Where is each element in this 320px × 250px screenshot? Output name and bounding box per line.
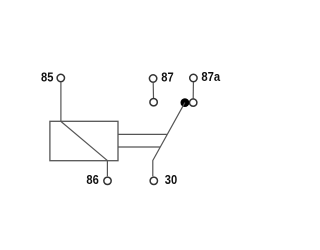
svg-text:30: 30 [165, 172, 177, 187]
contact 87a (normally closed) [190, 99, 197, 106]
svg-text:85: 85 [41, 70, 53, 85]
coil diagonal [61, 122, 107, 161]
terminal 87 [149, 75, 156, 82]
terminal 87a [190, 74, 197, 81]
wire 87 stub [152, 83, 154, 99]
wire 87a stub [192, 82, 194, 98]
actuator link upper [118, 133, 167, 135]
svg-text:86: 86 [86, 172, 98, 187]
terminal 30 [150, 177, 157, 184]
svg-text:87a: 87a [201, 69, 220, 84]
svg-text:87: 87 [161, 69, 173, 84]
armature contact dot [181, 98, 190, 107]
actuator link lower [118, 146, 160, 148]
wire coil to 86 [106, 161, 108, 177]
wire 85 to coil [60, 82, 62, 121]
contact 87 (normally open) [150, 99, 157, 106]
terminal 85 [57, 74, 64, 81]
coil box K1 [50, 121, 118, 160]
switch arm from dot to pin 30 [153, 103, 185, 177]
terminal 86 [104, 177, 111, 184]
